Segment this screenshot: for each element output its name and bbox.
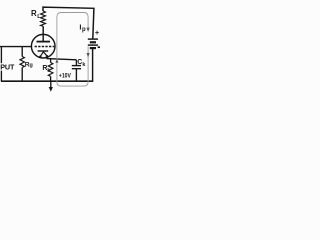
- svg-text:+: +: [95, 28, 100, 37]
- capacitor Ck top lead: [75, 60, 77, 65]
- resistor Rg branch wire bottom: [21, 68, 23, 82]
- resistor Rk lead: [50, 59, 52, 63]
- loop arrowhead up at cathode: [55, 59, 58, 63]
- capacitor Ck bottom plate: [72, 68, 81, 70]
- wire: top rail from RL top to right corner and down to battery: [43, 7, 94, 39]
- svg-text:k: k: [82, 62, 85, 68]
- wire: grid lead from left edge to tube: [0, 46, 32, 48]
- label +10V annotation: [59, 73, 71, 80]
- resistor Rk wire to rail: [50, 76, 52, 81]
- svg-text:L: L: [37, 14, 41, 20]
- ground arrow below rail: [50, 81, 52, 88]
- wire: cathode to capacitor node: [47, 56, 76, 60]
- loop arrowhead down below battery: [87, 53, 90, 57]
- svg-text:k: k: [47, 68, 50, 74]
- battery long plate: [88, 44, 98, 46]
- svg-text:g: g: [30, 62, 33, 68]
- svg-text:+10V: +10V: [59, 73, 71, 80]
- tube heater: [40, 52, 47, 57]
- battery - label: [98, 46, 100, 48]
- tube cathode bar: [38, 50, 49, 52]
- wire: bottom ground rail: [1, 80, 93, 82]
- svg-text:p: p: [82, 27, 86, 33]
- capacitor Ck top plate: [72, 65, 81, 67]
- loop arrowhead down above battery: [87, 28, 90, 32]
- tube pin dot left: [39, 55, 42, 58]
- wire: input left vertical lower: [0, 71, 2, 82]
- wire: input left vertical upper: [0, 47, 2, 64]
- resistor Rg zigzag: [20, 57, 24, 68]
- capacitor Ck bottom lead: [75, 69, 77, 82]
- resistor Rk zigzag: [48, 63, 53, 77]
- battery B+ plate long top: [88, 38, 98, 40]
- svg-text:PUT: PUT: [0, 62, 15, 71]
- tube pin dot right: [46, 55, 49, 58]
- Ip electron-current loop (light): [57, 13, 88, 87]
- resistor Rg branch wire top: [21, 47, 23, 57]
- tube grid (dashed): [35, 46, 55, 48]
- battery bottom lead to rail: [92, 48, 94, 81]
- tube plate bar: [37, 41, 51, 43]
- wire: plate lead: [42, 26, 44, 41]
- svg-text:R: R: [31, 9, 37, 18]
- battery short plate: [90, 41, 96, 43]
- resistor RL zigzag: [41, 11, 46, 26]
- tube V1 envelope: [31, 34, 55, 58]
- battery short plate bottom: [90, 47, 96, 49]
